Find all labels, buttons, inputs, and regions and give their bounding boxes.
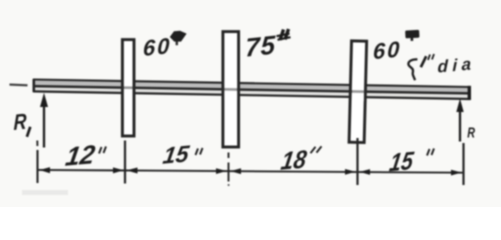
svg-text:15: 15: [161, 140, 192, 168]
svg-text:60: 60: [373, 36, 402, 64]
svg-text:60: 60: [143, 33, 172, 61]
svg-text:R: R: [13, 110, 27, 136]
svg-text:12: 12: [64, 139, 98, 172]
svg-text:dia: dia: [437, 54, 475, 76]
svg-text:75: 75: [245, 29, 277, 62]
svg-text:R: R: [467, 124, 475, 141]
